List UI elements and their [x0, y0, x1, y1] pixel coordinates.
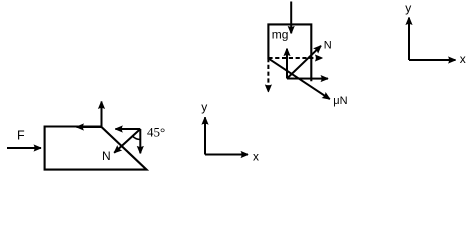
- svg-text:F: F: [17, 128, 25, 142]
- svg-text:x: x: [460, 52, 466, 66]
- svg-text:mg: mg: [272, 28, 289, 42]
- svg-text:N: N: [102, 149, 111, 163]
- svg-text:45°: 45°: [147, 124, 165, 139]
- svg-text:μN: μN: [333, 95, 347, 107]
- svg-text:N: N: [324, 39, 332, 51]
- svg-text:x: x: [253, 149, 259, 163]
- svg-text:y: y: [201, 100, 207, 114]
- svg-text:y: y: [405, 1, 411, 15]
